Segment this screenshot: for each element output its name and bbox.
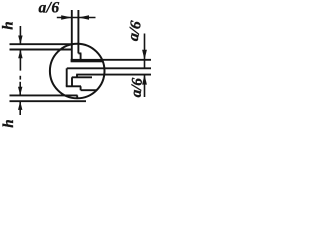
svg-text:a/6: a/6: [129, 77, 146, 98]
svg-text:a/6: a/6: [125, 19, 145, 42]
svg-text:a/6: a/6: [39, 0, 60, 17]
svg-text:h: h: [1, 119, 17, 127]
svg-text:h: h: [1, 21, 17, 29]
